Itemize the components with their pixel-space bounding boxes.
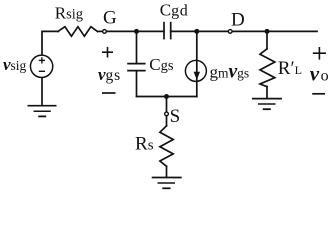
junction dot output/R'_L [265,29,270,34]
wire: output junction down to R'_L [266,31,268,48]
node D (open terminal) [228,30,232,34]
resistor R_S [160,126,173,167]
junction dot source rail/S [164,94,169,99]
wire: C_gs bottom plate down to source rail [136,71,138,97]
svg-text:Rsig: Rsig [55,4,83,23]
wire: R'_L to ground [266,87,268,99]
capacitor C_gs [127,64,145,71]
current source arrowhead [194,72,200,80]
svg-text:S: S [170,106,181,127]
junction dot gate/C_gs [134,29,139,34]
plus sign inside v_sig [39,59,45,61]
voltage source v_sig [30,55,52,77]
wire: R_sig to node G [97,30,102,32]
wire: v_sig bottom to ground [41,78,43,106]
resistor R'_L [260,49,275,87]
junction dot drain/current source [194,29,199,34]
dependent current source g_m*v_gs [185,60,206,81]
plus of v_gs [102,47,113,58]
svg-text:Cgd: Cgd [160,1,189,20]
wire: R_S to bottom ground [166,166,168,177]
svg-text:Cgs: Cgs [149,55,174,74]
svg-text:vgs: vgs [98,65,121,84]
capacitor C_gd [164,22,171,40]
wire: node D to right end of top rail [233,30,318,32]
svg-text:gmvgs: gmvgs [210,62,250,83]
minus sign inside v_sig [39,70,45,72]
resistor R_sig [58,27,97,37]
wire: C_gd right plate to node D [171,30,228,32]
ground below R'_L [252,99,282,110]
svg-text:Rs: Rs [135,134,154,155]
ground below v_sig [28,106,57,117]
ground below R_S [152,178,182,189]
minus of v_o [312,93,325,95]
wire: source rail junction down to node S [166,97,168,112]
wire: bottom source rail [137,96,197,98]
plus of v_o [313,47,326,60]
wire: left corner from top rail down to source [42,31,58,55]
wire: node S down to R_S [166,116,168,126]
wire: node G to C_gd left plate [107,30,164,32]
svg-text:vsig: vsig [3,55,27,74]
wire: gate junction down to C_gs [136,31,138,63]
svg-text:G: G [103,8,117,29]
node G (open terminal) [103,30,107,34]
node S (open terminal) [165,112,169,116]
minus of v_gs [102,92,116,94]
svg-text:D: D [231,10,245,31]
wire: drain junction through current source to source rail [196,31,198,96]
